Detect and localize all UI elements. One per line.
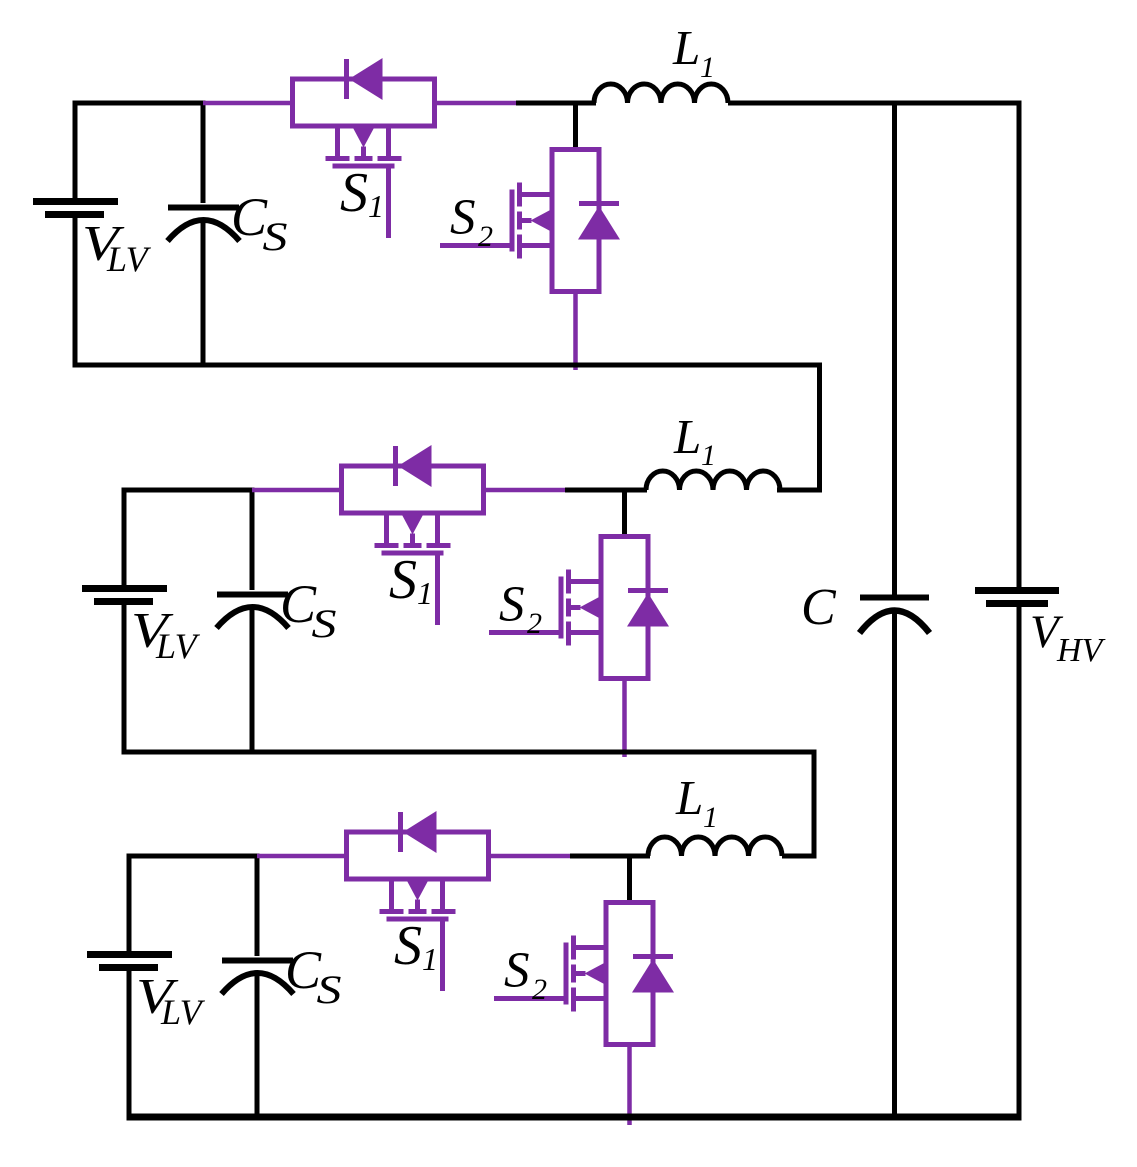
wire: stage3 black wire to inductor (570, 854, 650, 859)
svg-text:S: S (340, 162, 368, 224)
capacitor C: curved plate (860, 611, 930, 634)
svg-text:1: 1 (700, 51, 715, 84)
battery V_LV stage3: long plate (87, 951, 172, 958)
battery V_LV stage2: long plate (82, 585, 167, 592)
wire: V_HV bus (lower) (1017, 606, 1022, 1121)
wire: stage1 purple wire C_S node to S1 (203, 101, 295, 106)
svg-text:L: L (675, 770, 703, 825)
capacitor C_S stage1: curved plate (168, 220, 240, 241)
wire: stage1 left vertical (lower part) (73, 217, 78, 368)
capacitor C_S stage3: straight plate (222, 958, 293, 964)
wire: stage2 left vertical (upper part) (122, 488, 127, 587)
capacitor C_S stage3: curved plate (222, 973, 294, 994)
wire: stage1 S2 bottom lead (purple) (573, 291, 578, 370)
wire: stage2 black wire to inductor (565, 488, 647, 493)
inductor L1 stage1 (594, 84, 728, 103)
wire: stage1 C_S branch vertical (upper) (201, 101, 206, 204)
wire: capacitor C bus (lower) (892, 610, 897, 1117)
svg-text:1: 1 (422, 941, 438, 977)
wire: stage2 top wire inductor to connector (777, 488, 822, 493)
wire: stage2 top black segment from left corner to C_S node (122, 488, 255, 493)
battery V_LV stage1: short thick plate (45, 211, 104, 218)
wire: stage2 S2 bottom lead (purple) (622, 678, 627, 757)
wire: stage1 left vertical (upper part) (73, 101, 78, 200)
wire: stage2 purple wire C_S node to S1 (252, 488, 344, 493)
svg-text:HV: HV (1056, 632, 1107, 669)
wire: stage3 purple wire C_S node to S1 (257, 854, 349, 859)
svg-text:L: L (673, 409, 701, 464)
switch S1 stage2 (MOSFET with body diode, rotated) (342, 445, 484, 625)
svg-text:S: S (504, 943, 530, 999)
switch S1 stage3 (MOSFET with body diode, rotated) (347, 811, 489, 991)
wire: stage1 C_S branch vertical (lower) (201, 221, 206, 368)
svg-text:1: 1 (701, 439, 716, 472)
capacitor C_S stage2: straight plate (217, 592, 288, 598)
wire: stage3 top wire inductor to connector (782, 854, 817, 859)
inductor L1 stage3 (648, 837, 782, 856)
svg-text:1: 1 (703, 801, 718, 834)
inductor L1 stage2 (646, 471, 780, 490)
switch S2 stage2 (MOSFET with body diode) (489, 537, 669, 679)
capacitor C_S stage1: straight plate (168, 205, 239, 211)
battery V_LV stage2: short thick plate (94, 598, 153, 605)
wire: stage1 black wire to inductor (516, 101, 596, 106)
wire: stage1 top black segment from left corner to C_S node (73, 101, 206, 106)
wire: stage3 left vertical (lower part) (127, 970, 132, 1121)
wire: stage1 bottom horizontal rail (73, 363, 823, 368)
svg-text:S: S (317, 968, 342, 1012)
switch S1 stage1 (MOSFET with body diode, rotated) (293, 58, 435, 238)
wire: stage3 S2 bottom lead (purple) (627, 1044, 632, 1125)
wire: stage2 C_S branch vertical (upper) (250, 488, 255, 591)
svg-text:S: S (263, 215, 288, 259)
battery V_HV: short thick plate (986, 600, 1048, 607)
battery V_LV stage3: short thick plate (99, 964, 158, 971)
wire: stage3 left vertical (upper part) (127, 854, 132, 953)
svg-text:1: 1 (417, 575, 433, 611)
svg-text:C: C (801, 579, 837, 636)
wire: connector stage2-bottom to stage3-inductor (vertical) (812, 752, 817, 856)
svg-text:L: L (672, 20, 700, 75)
wire: connector stage1-bottom to stage2-inductor (vertical) (817, 365, 822, 490)
svg-text:2: 2 (532, 973, 547, 1006)
svg-text:S: S (499, 577, 525, 633)
wire: stage2 S2 top lead (622, 490, 627, 538)
svg-text:2: 2 (478, 220, 493, 253)
wire: stage2 bottom horizontal rail (122, 750, 817, 755)
svg-text:S: S (394, 915, 422, 977)
switch S2 stage1 (MOSFET with body diode) (440, 150, 620, 292)
svg-text:1: 1 (368, 188, 384, 224)
wire: stage2 left vertical (lower part) (122, 604, 127, 755)
wire: capacitor C bus (upper) (892, 103, 897, 597)
wire: stage1 S2 top lead (573, 103, 578, 151)
battery V_HV: long plate (975, 587, 1059, 594)
wire: bottom output rail (127, 1114, 1022, 1121)
svg-text:2: 2 (527, 607, 542, 640)
wire: stage1 purple wire S1 to black (432, 101, 516, 106)
wire: top output rail (728, 101, 1022, 106)
capacitor C_S stage2: curved plate (217, 607, 289, 628)
svg-text:S: S (450, 190, 476, 246)
svg-text:S: S (312, 602, 337, 646)
wire: stage3 C_S branch vertical (upper) (255, 854, 260, 957)
wire: V_HV bus (upper) (1017, 101, 1022, 589)
svg-text:LV: LV (160, 992, 206, 1032)
wire: stage2 purple wire S1 to black (481, 488, 565, 493)
svg-text:LV: LV (155, 626, 201, 666)
wire: stage3 top black segment from left corner to C_S node (127, 854, 260, 859)
wire: stage3 S2 top lead (627, 856, 632, 904)
svg-text:LV: LV (106, 239, 152, 279)
wire: stage3 purple wire S1 to black (486, 854, 570, 859)
svg-text:S: S (389, 549, 417, 611)
capacitor C: straight plate (860, 595, 929, 601)
battery V_LV stage1: long plate (33, 198, 118, 205)
wire: stage3 C_S branch vertical (lower) (255, 974, 260, 1121)
switch S2 stage3 (MOSFET with body diode) (494, 903, 674, 1045)
wire: stage2 C_S branch vertical (lower) (250, 608, 255, 755)
